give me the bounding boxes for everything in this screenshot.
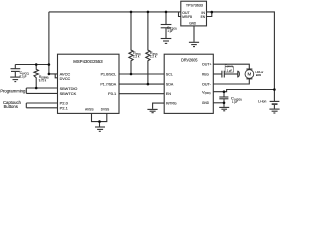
svg-text:ERM: ERM	[256, 73, 262, 77]
svg-text:P3.1: P3.1	[108, 91, 117, 96]
svg-text:GND: GND	[202, 100, 209, 105]
svg-text:Buttons: Buttons	[4, 104, 18, 109]
svg-text:DRV2605: DRV2605	[181, 57, 198, 62]
svg-text:M: M	[248, 72, 252, 77]
svg-text:Programming: Programming	[0, 88, 26, 93]
svg-text:MR/FB: MR/FB	[182, 14, 192, 19]
svg-text:SDA: SDA	[166, 82, 174, 87]
svg-text:9.75 k: 9.75 k	[39, 78, 47, 82]
svg-text:Li-Ion: Li-Ion	[258, 99, 266, 104]
svg-text:DVCC: DVCC	[60, 76, 71, 81]
svg-text:REG: REG	[202, 71, 209, 76]
svg-text:GND: GND	[189, 21, 196, 26]
svg-text:EN: EN	[166, 91, 171, 96]
svg-text:SBWTDIO: SBWTDIO	[60, 86, 78, 91]
svg-text:1 µF: 1 µF	[167, 29, 173, 33]
svg-text:OUT-: OUT-	[202, 81, 211, 86]
svg-text:AVSS: AVSS	[85, 107, 94, 112]
svg-text:1 µF: 1 µF	[232, 99, 238, 104]
svg-text:0.1 µF: 0.1 µF	[20, 74, 27, 78]
svg-text:OUT+: OUT+	[202, 62, 212, 67]
svg-text:IN/TRIG: IN/TRIG	[166, 101, 177, 106]
svg-text:SCL: SCL	[166, 72, 174, 77]
svg-text:2.2 k: 2.2 k	[150, 55, 157, 59]
svg-text:1 µF: 1 µF	[227, 69, 232, 73]
svg-text:SBWTCK: SBWTCK	[60, 91, 77, 96]
svg-text:DVSS: DVSS	[101, 107, 110, 112]
svg-text:MSP430G2553: MSP430G2553	[73, 59, 103, 64]
svg-text:TPS73633: TPS73633	[186, 2, 203, 7]
svg-text:2.2 k: 2.2 k	[133, 55, 140, 59]
svg-text:EN: EN	[201, 14, 205, 19]
svg-text:P1.6/SCL: P1.6/SCL	[101, 71, 117, 76]
svg-text:P2.1: P2.1	[60, 106, 69, 111]
svg-text:P1.7/SDA: P1.7/SDA	[100, 82, 116, 87]
svg-text:V(DD): V(DD)	[202, 89, 211, 95]
